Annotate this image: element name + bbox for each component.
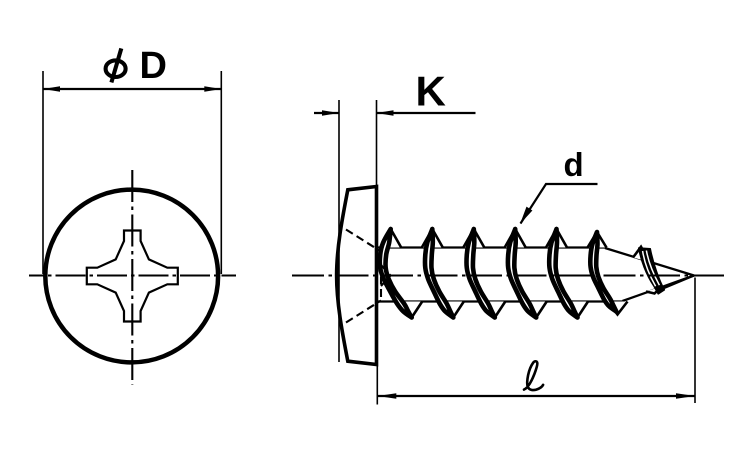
side view: bottom thread crest 1 — [401, 302, 422, 318]
side view: top thread crest 2 — [422, 229, 443, 248]
front view: screw head outline (circle) — [45, 190, 218, 363]
dimension φD: right extension line — [220, 71, 222, 274]
side view: bottom thread crest 4 — [526, 302, 547, 318]
side view: bottom thread crest 3 — [484, 302, 505, 318]
side view: top thread crest 3 — [463, 229, 484, 248]
side view: thread core bottom line (minor diameter) — [377, 300, 623, 302]
side view: bottom thread crest 2 — [443, 302, 464, 318]
dimension ℓ: right arrowhead — [676, 393, 695, 399]
side view: hidden recess wing depth line (dashed) — [380, 252, 382, 301]
side view: top thread crest 5 — [546, 229, 567, 248]
side view: tip cone upper silhouette — [605, 248, 694, 276]
side view: screw axis center line — [292, 274, 724, 276]
svg-text:K: K — [416, 67, 446, 114]
side view: thread core top line (minor diameter) — [377, 246, 605, 248]
dimension ℓ: left arrowhead — [377, 393, 396, 399]
side view: thread helix ribbon 1 (hugging head) — [380, 229, 412, 318]
side view: hidden recess apex upper (dashed) — [381, 265, 391, 276]
side view: hidden recess upper flank (dashed) — [346, 230, 381, 252]
side view: tip cone lower silhouette — [623, 276, 695, 302]
side view: hidden recess lower flank (dashed) — [346, 301, 381, 323]
side view: tip cone extra lower edge near point — [657, 276, 694, 292]
label φ (diameter symbol) — [106, 48, 126, 82]
side view: thread helix ribbon 7 (solid stripe on tip cone) — [639, 248, 665, 294]
dimension ℓ: left extension line — [376, 366, 378, 405]
side view: top thread crest 4 — [505, 229, 526, 248]
leader d: leader line — [521, 184, 598, 224]
dimension ℓ: dimension line — [377, 395, 695, 397]
dimension K: right arrowhead (pointing left) — [377, 110, 394, 116]
side view: thread helix ribbon 4 — [508, 229, 536, 318]
dimension K: right extension line — [376, 100, 378, 189]
side view: bottom thread crest 6 (smaller) — [608, 302, 628, 315]
side view: hidden recess apex lower (dashed) — [381, 276, 391, 287]
dimension K: right dimension line — [377, 112, 476, 114]
side view: thread helix ribbon 5 — [549, 229, 577, 318]
side view: top thread crest 6 (smaller) — [588, 232, 607, 248]
front view: vertical center line of head — [131, 170, 133, 385]
side view: thread helix ribbon 3 — [466, 229, 494, 318]
dimension φD: dimension line — [43, 88, 221, 90]
side view: pan head profile — [337, 187, 377, 365]
label ℓ (screw length, script ell) — [524, 361, 543, 390]
side view: smallest bottom crest near tip — [646, 286, 662, 293]
dimension ℓ: right extension line — [694, 278, 696, 404]
front view: phillips cross recess outline — [87, 231, 178, 322]
side view: thread helix ribbon 2 — [425, 229, 453, 318]
side view: thread helix ribbon 6 (smaller) — [590, 232, 616, 312]
dimension K: left arrowhead (pointing right) — [322, 110, 339, 116]
svg-text:d: d — [564, 146, 584, 183]
svg-text:D: D — [140, 45, 167, 87]
dimension K: left extension line — [338, 100, 340, 362]
dimension φD: left arrowhead — [43, 86, 60, 92]
dimension K: left dimension line — [314, 112, 339, 114]
front view: horizontal center line of head — [29, 274, 236, 276]
leader d: arrowhead — [520, 207, 532, 224]
dimension φD: left extension line — [42, 71, 44, 274]
side view: small top crest on cone — [633, 247, 650, 262]
dimension φD: right arrowhead — [204, 86, 221, 92]
side view: bottom thread crest 5 — [567, 302, 588, 318]
side view: top thread crest 1 — [380, 229, 401, 248]
